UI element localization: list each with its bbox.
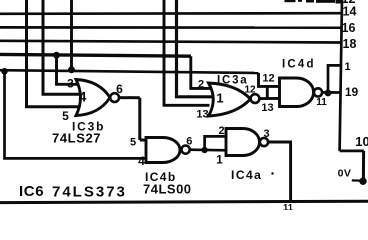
node IC4d output junction [325, 90, 332, 97]
wire IC4d output to chip pin 1 [328, 65, 341, 93]
bubble IC3a output [251, 94, 260, 103]
wire bus line 5 [0, 70, 259, 73]
wire IC4b pin 4 from node on line 5 [5, 71, 147, 158]
wire IC3b pin 3 from node on line 4 [57, 55, 91, 84]
wire vertical to IC3a pin 13 [164, 0, 210, 105]
svg-text:16: 16 [342, 21, 356, 35]
wire vertical to IC3b pin 5 [27, 0, 90, 107]
wire IC4d output [322, 91, 341, 94]
wire bus line 4 [0, 54, 191, 56]
wire IC3a pin 2 from end of line 4 [191, 56, 211, 88]
bubble IC4d output [314, 88, 322, 96]
svg-text:2: 2 [198, 78, 204, 90]
svg-text:74LS373: 74LS373 [52, 184, 127, 201]
svg-text:3: 3 [67, 77, 74, 91]
svg-text:13: 13 [196, 108, 208, 120]
IC6 chip top edge [0, 201, 368, 202]
svg-text:11: 11 [316, 97, 327, 108]
wire chip pin 10 to 0V [362, 151, 365, 179]
wire bus line 1 [0, 12, 342, 15]
wire bus line 2 [0, 26, 341, 29]
svg-text:5: 5 [62, 109, 69, 123]
wire bus line 3 [0, 41, 341, 43]
svg-text:3: 3 [263, 128, 269, 140]
wire vertical to IC3b pin 4 [43, 0, 89, 94]
svg-text:IC4d: IC4d [282, 59, 316, 71]
svg-text:74LS00: 74LS00 [143, 182, 192, 197]
wire IC4b output to IC4a pin 1 [190, 148, 227, 151]
svg-text:18: 18 [343, 37, 357, 51]
chip bottom edge [340, 150, 364, 153]
wire vertical to IC3a pin 1 [177, 0, 215, 97]
svg-text:12: 12 [244, 85, 256, 96]
svg-text:6: 6 [116, 82, 123, 96]
svg-text:1: 1 [216, 153, 223, 167]
svg-text:1: 1 [216, 90, 223, 105]
svg-text:4: 4 [79, 89, 87, 105]
svg-text:IC4a: IC4a [231, 168, 262, 182]
bubble IC3b output [110, 93, 119, 102]
svg-text:IC6: IC6 [19, 183, 44, 200]
wire joining IC4d pins 12 and 13 [266, 86, 269, 98]
top edge text fragments [285, 0, 296, 2]
speck after IC4a [271, 172, 273, 174]
op-amp gates [76, 78, 322, 163]
svg-text:19: 19 [345, 85, 359, 99]
svg-text:5: 5 [130, 136, 136, 148]
bubble IC4b output [182, 146, 190, 154]
NOR gate IC3a [209, 83, 251, 116]
node 0V terminal [359, 178, 366, 185]
wire IC4a output to IC6 pin 11 [268, 142, 291, 201]
bubble IC4a output [260, 138, 268, 146]
svg-text:0V: 0V [338, 168, 352, 180]
NAND gate IC4b [146, 138, 180, 163]
NAND gate IC4a [226, 129, 260, 156]
NAND gate IC4d [280, 78, 314, 107]
svg-text:2: 2 [218, 125, 224, 137]
svg-text:74LS27: 74LS27 [52, 131, 101, 146]
svg-text:14: 14 [343, 5, 357, 19]
svg-text:1: 1 [344, 61, 350, 73]
svg-text:4: 4 [138, 154, 145, 168]
svg-text:6: 6 [186, 135, 192, 147]
svg-text:13: 13 [261, 102, 273, 114]
wire IC3b output to IC4b pin 5 [119, 98, 147, 140]
wire vertical to node on line 5 [70, 0, 73, 70]
svg-text:11: 11 [283, 203, 294, 211]
svg-text:12: 12 [342, 0, 356, 6]
node on line 4 [53, 52, 60, 59]
chip left edge [340, 0, 342, 151]
svg-text:12: 12 [262, 73, 274, 85]
wire IC4a pin 2 from junction [205, 136, 227, 150]
node on line 5 [68, 66, 75, 73]
wire IC3a output to IC4d pin 13 [259, 97, 280, 100]
NOR gate IC3b [76, 80, 110, 116]
svg-text:10: 10 [355, 134, 368, 149]
node on line 5 left edge [1, 68, 8, 75]
wire 0V stub [352, 179, 360, 181]
wire IC4d pin 12 from end of line 5 [259, 73, 281, 86]
node IC4b output junction [201, 147, 207, 153]
